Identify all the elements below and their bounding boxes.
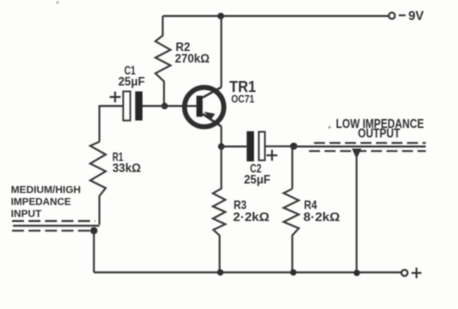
- node: R4 to bottom rail: [290, 269, 296, 275]
- svg-text:R2: R2: [176, 42, 191, 54]
- transistor TR1 (OC71, PNP): [185, 87, 224, 127]
- wire: emitter node to C2: [221, 146, 246, 148]
- node: output screen ground tap (triangle): [352, 149, 362, 157]
- svg-text:INPUT: INPUT: [11, 208, 42, 220]
- wire: output inner conductor (solid): [294, 146, 426, 148]
- node: output ground to bottom rail: [354, 270, 360, 276]
- resistor R4: [284, 189, 299, 273]
- label MEDIUM/HIGH IMPEDANCE INPUT: [11, 184, 81, 220]
- label R4 8·2kΩ: [303, 200, 340, 224]
- label -9V: [399, 8, 424, 23]
- wire: collector to top rail: [220, 16, 222, 87]
- capacitor C2: [247, 131, 265, 161]
- svg-text:MEDIUM/HIGH: MEDIUM/HIGH: [11, 184, 81, 196]
- wire: -9V supply top rail: [163, 15, 389, 17]
- node: base junction (R2/C1/base): [161, 103, 168, 110]
- wire: output node down to R4: [291, 146, 293, 189]
- node: output junction: [290, 143, 297, 150]
- svg-text:IMPEDANCE: IMPEDANCE: [11, 196, 71, 208]
- svg-text:2·2kΩ: 2·2kΩ: [233, 212, 270, 224]
- wire: output screened-lead lower dashed conductor: [309, 150, 426, 152]
- svg-text:OUTPUT: OUTPUT: [358, 127, 400, 141]
- wire: input ground drop: [93, 231, 95, 273]
- terminal +: [401, 270, 407, 276]
- wire: output screened-lead upper dashed conductor: [314, 142, 426, 144]
- wire: emitter down to node: [220, 126, 222, 146]
- svg-text:25μF: 25μF: [118, 77, 145, 89]
- svg-text:R1: R1: [112, 152, 123, 164]
- node: input screen to ground: [90, 227, 97, 234]
- label + (C1 polarity): [110, 92, 121, 103]
- wire: input to C1 (left of C1, corner down): [99, 106, 123, 142]
- resistor R1: [90, 142, 106, 225]
- label C2 25µF: [244, 163, 270, 186]
- wire: C1 to base: [143, 105, 197, 107]
- wire: input screened-lead upper dashed conductor: [12, 220, 95, 222]
- svg-text:270kΩ: 270kΩ: [175, 54, 210, 66]
- label R3 2·2kΩ: [233, 200, 270, 224]
- node: R3 to bottom rail: [217, 269, 223, 275]
- wire: input screened-lead lower dashed conductor: [12, 230, 92, 232]
- wire: output ground drop: [356, 150, 358, 272]
- label LOW IMPEDANCE OUTPUT: [336, 117, 424, 141]
- capacitor C1: [123, 91, 142, 120]
- label TR1 OC71: [229, 79, 256, 106]
- node: collector/rail junction: [218, 13, 225, 20]
- terminal -9V: [389, 13, 395, 19]
- wire: bottom + rail: [94, 271, 401, 273]
- svg-text:8·2kΩ: 8·2kΩ: [303, 212, 340, 224]
- svg-text:25μF: 25μF: [244, 174, 270, 186]
- svg-text:9V: 9V: [408, 8, 424, 23]
- resistor R3: [213, 147, 225, 273]
- label + (positive terminal): [412, 268, 422, 279]
- svg-text:R4: R4: [304, 200, 318, 212]
- scan speck top left: [56, 1, 59, 4]
- svg-text:33kΩ: 33kΩ: [112, 163, 140, 175]
- label R2 270kΩ: [175, 42, 210, 66]
- wire: input inner conductor (solid): [13, 225, 99, 227]
- scan speck near LOW: [328, 126, 331, 129]
- label R1 33kΩ: [112, 152, 140, 175]
- label + (C2 polarity): [267, 150, 278, 161]
- svg-text:OC71: OC71: [231, 94, 254, 106]
- wire: C2 to output node: [265, 145, 294, 147]
- resistor R2: [155, 16, 170, 106]
- node: emitter junction: [218, 143, 225, 150]
- svg-text:R3: R3: [234, 200, 247, 212]
- label C1 25µF: [118, 65, 145, 88]
